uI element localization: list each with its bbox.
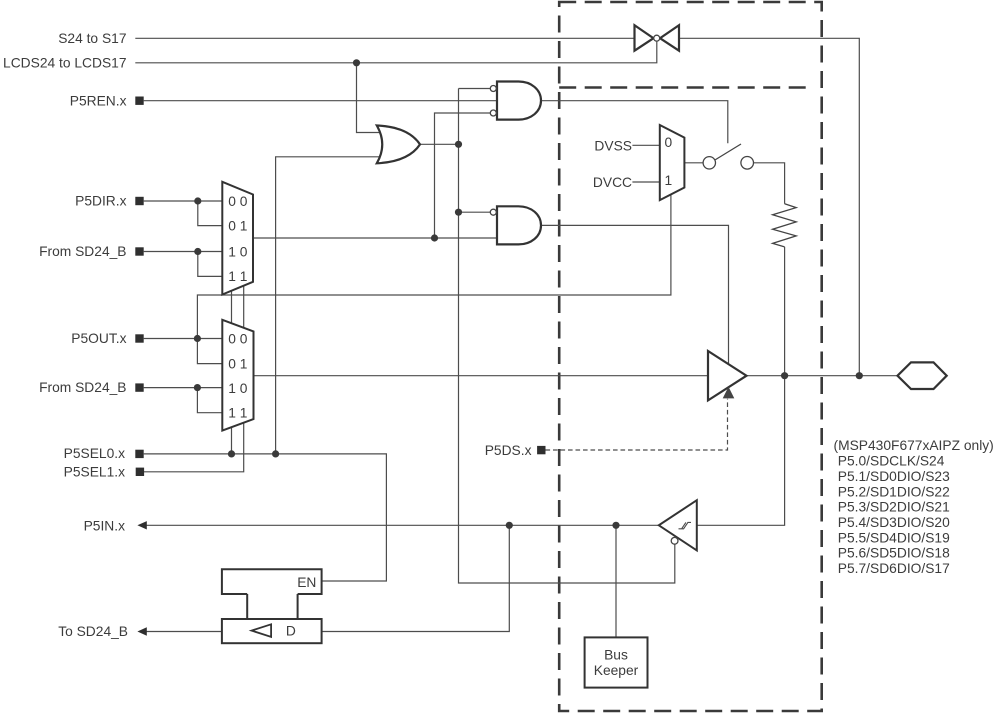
OR gate U1 [377,126,420,164]
svg-text:LCDS24 to LCDS17: LCDS24 to LCDS17 [3,56,126,71]
wire input line down to register D input [322,525,510,631]
wire driver output to pad [747,375,898,377]
junction P5IN to bus keeper [612,522,619,529]
wire P5SEL0 vertical up to OR gate bottom input [276,157,381,454]
svg-text:1 1: 1 1 [228,406,247,421]
register neck [247,594,297,619]
svg-text:P5.4/SD3DIO/S20: P5.4/SD3DIO/S20 [838,515,950,530]
svg-text:DVSS: DVSS [594,138,632,153]
P5DS dashed control line [546,399,728,450]
svg-text:P5SEL1.x: P5SEL1.x [64,465,125,480]
svg-text:1 1: 1 1 [228,269,247,284]
wire DVSS to mux3 input 0 [632,144,659,146]
svg-text:P5.6/SD5DIO/S18: P5.6/SD5DIO/S18 [838,546,950,561]
bus keeper box [585,637,648,687]
register clock triangle [252,624,272,637]
svg-text:From SD24_B: From SD24_B [39,244,126,259]
wire S24 to S17 left segment [135,37,634,39]
terminal square P5DIR.x [135,197,143,205]
junction pad net at S24 branch [856,372,863,379]
terminal square From SD24_B lower [135,383,143,391]
svg-text:0 0: 0 0 [228,331,248,346]
inner dashed separator line [559,86,813,89]
svg-text:P5.2/SD1DIO/S22: P5.2/SD1DIO/S22 [838,484,950,499]
svg-text:DVCC: DVCC [593,175,632,190]
svg-text:P5.1/SD0DIO/S23: P5.1/SD0DIO/S23 [838,469,950,484]
svg-text:1 0: 1 0 [228,381,248,396]
wire register output To SD24_B [147,631,222,633]
svg-text:(MSP430F677xAIPZ only): (MSP430F677xAIPZ only) [834,438,994,453]
terminal square P5REN.x [135,97,143,105]
wire LCDS24 to LCDS17 to transmission gate control [135,42,657,63]
svg-text:P5SEL0.x: P5SEL0.x [64,446,125,461]
wire mux3 output to switch [684,162,703,164]
junction AND2 top input tap [455,209,462,216]
wire P5OUT.x to mux2 inputs 00 and 01 [144,339,223,364]
junction P5OUT [194,335,201,342]
wire P5SEL1.x up into mux2 select [144,422,244,472]
wire pad net down to input buffer [697,376,785,526]
wire select B between mux1 and mux2 [243,286,245,328]
svg-text:P5REN.x: P5REN.x [70,93,127,108]
wire down to bus keeper [615,525,617,637]
switch S1 lever [715,144,741,160]
register EN box [222,569,322,594]
wire P5DIR.x to mux1 inputs 00 and 01 [144,201,223,226]
AND1 top input bubble [490,86,496,92]
svg-text:S24 to S17: S24 to S17 [58,31,126,46]
svg-text:Bus: Bus [604,647,628,662]
mux M2 input labels [228,331,248,420]
output driver buffer U4 [708,351,747,400]
terminal square From SD24_B upper [135,247,143,255]
junction P5DIR [194,197,201,204]
wire mux1 output tap up to AND1 bottom bubbled input [435,113,491,238]
svg-text:P5OUT.x: P5OUT.x [71,331,126,346]
wire AND2 output to output-driver enable [541,225,729,363]
P5DS drive-strength arrow head [723,387,735,399]
svg-text:P5IN.x: P5IN.x [84,518,126,533]
svg-text:P5.3/SD2DIO/S21: P5.3/SD2DIO/S21 [838,500,950,515]
junction P5IN to register D [506,522,513,529]
svg-text:P5.0/SDCLK/S24: P5.0/SDCLK/S24 [838,454,945,469]
svg-text:P5DIR.x: P5DIR.x [75,194,126,209]
pad hexagon P1 [898,362,947,389]
svg-text:EN: EN [297,575,316,590]
wire mux1 output to AND2 bottom input [253,237,497,239]
switch S1 left contact [703,157,715,169]
wire select A between mux1 and mux2 and down to P5SEL0 [231,291,233,454]
svg-text:1 0: 1 0 [228,244,248,259]
junction on LCDS line [353,59,360,66]
resistor R1 (pull-up/pull-down) [773,204,797,247]
terminal square P5SEL1.x [136,468,144,476]
pad function note [834,438,994,576]
wire to AND1 top bubbled input [459,88,491,90]
svg-text:1: 1 [664,173,672,188]
junction pad net at resistor [781,372,788,379]
svg-text:From SD24_B: From SD24_B [39,380,126,395]
terminal square P5SEL0.x [135,450,143,458]
wire mux2 output to output driver input [254,375,709,377]
svg-text:To SD24_B: To SD24_B [58,624,128,639]
junction OR output [455,141,462,148]
mux M1 (direction mux) [222,182,253,295]
wire to AND2 top bubbled input [459,211,491,213]
arrow head P5IN.x [137,521,146,529]
AND gate U2 (top, output enables switch) [497,82,541,120]
terminal square P5DS.x [537,446,545,454]
svg-text:0: 0 [664,135,672,150]
mux M3 (DVSS/DVCC pull select mux) [660,125,685,200]
wire AND1 output to switch control [541,101,728,144]
AND1 bottom input bubble [490,110,496,116]
svg-text:0 0: 0 0 [228,194,248,209]
junction From SD24_B upper [194,248,201,255]
wire P5IN.x from input buffer output [147,524,659,526]
wire resistor bottom to pad net [784,247,786,376]
wire From SD24_B to mux2 inputs 10 and 11 [144,388,223,413]
mux M2 (output data mux) [222,320,253,431]
outer dashed pad-area box [559,2,822,711]
svg-text:P5.5/SD4DIO/S19: P5.5/SD4DIO/S19 [838,530,950,545]
svg-text:Keeper: Keeper [594,663,639,678]
wire DVCC to mux3 input 1 [632,181,659,183]
wire P5REN.x to AND1 middle input [144,100,497,102]
wire From SD24_B to mux1 inputs 10 and 11 [144,252,223,277]
transmission gate control bubble [654,35,660,41]
wire switch to pull resistor [754,163,785,204]
wire OR gate output [420,143,459,145]
transmission gate (analog switch) on S24 line [635,25,680,51]
arrow head To SD24_B [137,627,146,635]
svg-text:D: D [286,623,296,638]
AND2 top input bubble [490,209,496,215]
junction P5SEL0 at select A [228,450,235,457]
mux M1 input labels [228,194,248,284]
svg-text:0 1: 0 1 [228,218,247,233]
register D box [222,619,322,643]
terminal square P5OUT.x [135,334,143,342]
switch S1 right contact [741,157,754,170]
svg-text:P5DS.x: P5DS.x [485,443,532,458]
wire P5OUT tap up to pull-up/down select of DVSS-DVCC mux [197,194,671,338]
wire P5SEL0.x to register EN input [144,454,387,581]
input Schmitt-trigger buffer U5 [659,500,697,550]
Schmitt enable bubble [671,537,678,544]
AND gate U3 (bottom, output enables driver) [497,206,541,244]
junction mux1 output tap [431,234,438,241]
junction From SD24_B lower [194,384,201,391]
Schmitt hysteresis symbol [679,522,692,528]
wire LCDS tap down to OR gate top input [357,63,381,133]
junction P5SEL0 at OR tap [272,450,279,457]
svg-text:0 1: 0 1 [228,356,247,371]
svg-text:P5.7/SD6DIO/S17: P5.7/SD6DIO/S17 [838,561,950,576]
wire OR output vertical bus down to input-buffer enable [459,89,675,584]
wire S24 right segment to pad net [679,38,859,375]
